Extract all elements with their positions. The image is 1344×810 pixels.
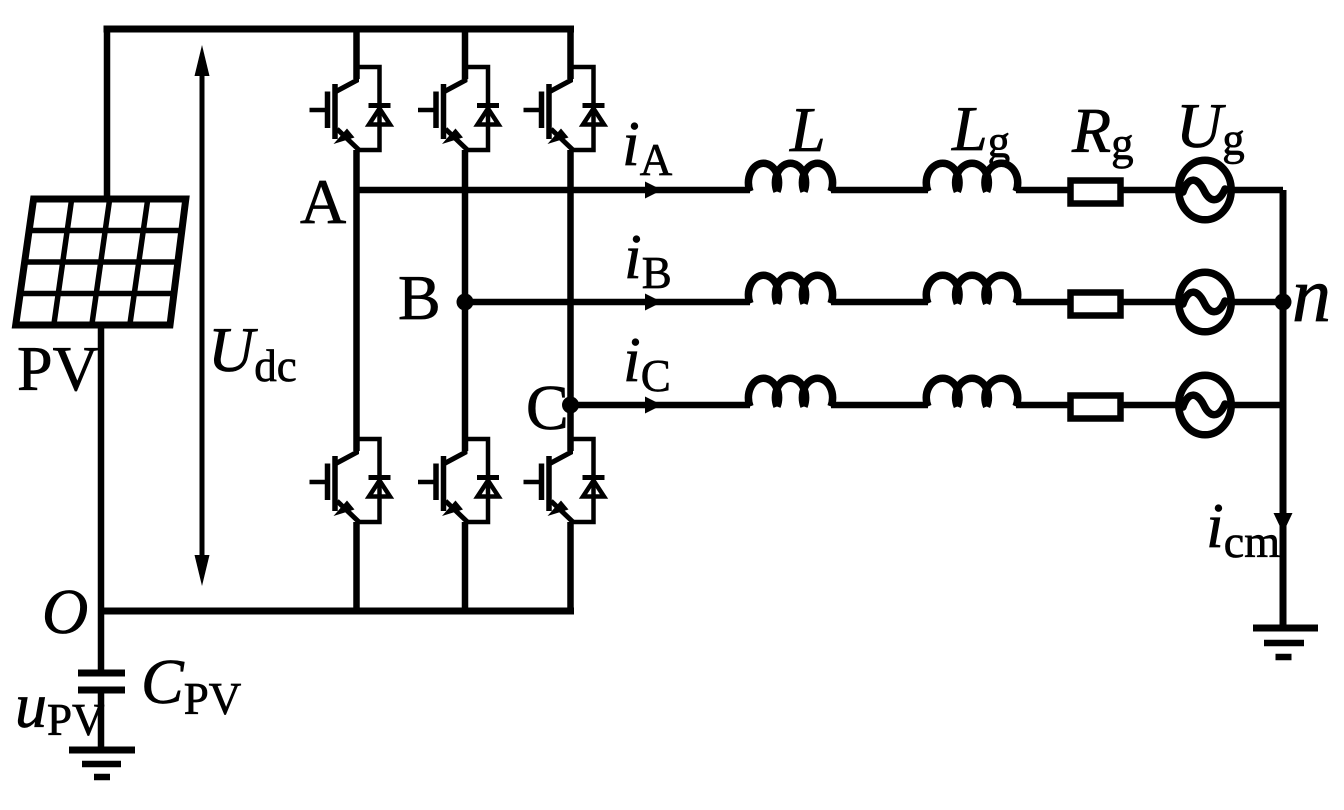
wire: left DC bus lower (PV to node O) [98,325,105,611]
AC grid source Ug phase A [1179,160,1231,220]
wire: right neutral bus [1280,190,1287,628]
svg-text:B: B [398,262,441,333]
IGBT S6 (lower, leg B) with antiparallel diode [418,437,499,523]
Udc measurement double arrow [200,56,205,575]
wire: phase A output line [357,187,1284,194]
IGBT S4 (lower, leg A) with antiparallel diode [310,437,391,523]
svg-text:O: O [42,576,88,647]
wire: leg B middle segment [462,150,469,451]
svg-text:PV: PV [17,333,99,404]
resistor Rg phase C [1071,396,1121,419]
svg-text:n: n [1292,251,1331,338]
svg-text:C: C [526,372,569,443]
junction dot node B [457,294,474,311]
wire: phase B output line [465,299,1283,306]
inductor L phase B [748,275,832,303]
wire: left DC bus upper (PV + to rail) [104,29,111,199]
inductor Lg phase B [926,275,1017,303]
junction dot node n [1275,294,1292,311]
svg-text:L: L [789,94,826,165]
wire: leg A lower segment [353,522,360,611]
current arrow iC [645,397,662,414]
current arrow iB [645,294,662,311]
IGBT S5 (upper, leg C) with antiparallel diode [524,65,605,151]
IGBT S1 (upper, leg A) with antiparallel diode [310,65,391,151]
current arrow i_cm [1274,513,1293,533]
junction dot node C [562,397,579,414]
wire: bottom DC rail [101,608,574,615]
resistor Rg phase B [1071,293,1121,316]
ground (right, grid neutral) [1253,628,1318,657]
wire: leg C upper segment [567,29,574,79]
IGBT S2 (lower, leg C) with antiparallel diode [524,437,605,523]
inductor Lg phase C [926,378,1017,406]
IGBT S3 (upper, leg B) with antiparallel diode [418,65,499,151]
current arrow iA [645,182,662,199]
inductor L phase C [748,378,832,406]
wire: leg A upper segment [353,29,360,79]
wire: leg C lower segment [567,522,574,611]
wire: phase C output line [571,402,1284,409]
AC grid source Ug phase B [1179,272,1231,332]
resistor Rg phase A [1071,181,1121,204]
ground (left, PV side) [69,750,135,777]
wire: leg B upper segment [462,29,469,79]
AC grid source Ug phase C [1179,375,1231,435]
capacitor C_PV [78,673,125,690]
wire: leg C middle segment [567,150,574,451]
svg-text:A: A [300,166,346,237]
inductor Lg phase A [926,163,1017,191]
wire: leg A middle segment [353,150,360,451]
wire: top DC rail [104,26,575,33]
wire: capacitor to ground [98,693,105,747]
wire: leg B lower segment [462,522,469,611]
wire: O node to capacitor [98,611,105,670]
PV array panel [16,199,186,325]
inductor L phase A [748,163,832,191]
